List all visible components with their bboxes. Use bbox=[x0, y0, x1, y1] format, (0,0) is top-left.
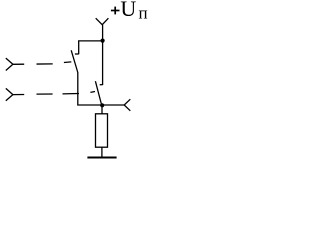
output connector bbox=[124, 99, 130, 111]
wire: bottom rail to output bbox=[102, 104, 124, 106]
control link 2 (dashed) bbox=[37, 92, 96, 95]
svg-text:п: п bbox=[139, 3, 148, 22]
switch S1 fixed contact tick bbox=[75, 53, 79, 55]
wire: S1 to bottom rail bbox=[78, 72, 102, 105]
supply label +Uп bbox=[111, 7, 120, 15]
input connector 1 bbox=[6, 58, 24, 70]
node: bottom junction dot bbox=[100, 103, 104, 107]
input connector 2 bbox=[6, 88, 24, 100]
supply connector (arrow to +Uп) bbox=[96, 18, 109, 25]
control link 1 (dashed) bbox=[37, 62, 72, 64]
wire: supply vertical line bbox=[102, 25, 104, 85]
switch S2 fixed contact tick bbox=[100, 84, 103, 86]
wire: resistor to ground bbox=[101, 147, 103, 157]
node: top junction dot bbox=[101, 39, 105, 43]
resistor R bbox=[96, 114, 108, 147]
ground bbox=[87, 157, 116, 159]
wire: junction to resistor R bbox=[101, 105, 103, 114]
switch S2 arm bbox=[95, 81, 101, 104]
svg-text:U: U bbox=[120, 0, 136, 21]
wire: top rail to switch S1 bbox=[79, 41, 103, 54]
switch S1 arm bbox=[71, 50, 78, 72]
